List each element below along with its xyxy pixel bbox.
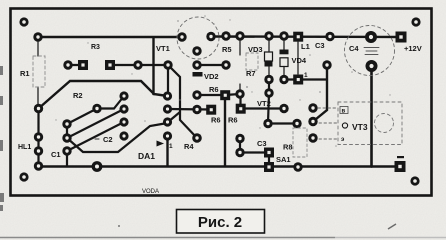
diode VD2 cathode bar <box>193 72 203 77</box>
wire VT1 vertical to DA1 pin <box>154 38 168 96</box>
pad 226,65 <box>221 60 230 69</box>
VT1 pad left <box>177 32 186 41</box>
wire VD2 row <box>197 64 226 66</box>
DA1 pin1 triangle <box>157 141 165 147</box>
svg-text:VODA: VODA <box>142 189 159 195</box>
svg-text:C1: C1 <box>51 150 61 159</box>
wire x327 vertical with diagonal <box>313 65 327 122</box>
capacitor C1 pads column <box>62 119 71 155</box>
svg-text:C2: C2 <box>103 135 113 144</box>
ground bus wire <box>39 165 401 168</box>
svg-text:R4: R4 <box>184 142 194 151</box>
svg-text:R7: R7 <box>246 69 256 78</box>
square pad minus terminal <box>395 161 406 172</box>
mounting hole top-left <box>19 17 28 26</box>
VT3 base letter <box>340 107 348 114</box>
node pads x313 column <box>308 103 317 142</box>
IC DA1 pads left column <box>119 91 128 140</box>
wire VT3 collector vertical <box>370 66 373 167</box>
tick before C2 <box>95 138 99 140</box>
wire C1 column verticals <box>66 124 68 138</box>
wire pad row y65 left pair <box>68 64 83 66</box>
wire resistor R5 leads <box>239 36 241 55</box>
pad row y65 a <box>63 60 72 69</box>
small artifact right <box>388 224 396 229</box>
square pad SA1 top <box>264 148 274 158</box>
wire DA1 pin8 to ground bus <box>166 136 168 166</box>
bottom rule artifact <box>0 237 335 239</box>
wire C3 pads vertical <box>239 139 241 153</box>
svg-text:1: 1 <box>304 72 308 79</box>
square pad L1 bottom <box>293 75 303 85</box>
diode VD3 body <box>265 52 273 67</box>
wire R2 polygon from pad 38,108 <box>39 81 155 109</box>
svg-text:R3: R3 <box>91 44 100 51</box>
square pad 83,65 <box>78 60 88 70</box>
wire C3 to SA1 <box>240 151 269 153</box>
mounting hole top-right <box>411 17 420 26</box>
transistor VT3 dashed circle <box>375 114 394 133</box>
diode VD4 body <box>280 50 289 67</box>
svg-text:DA1: DA1 <box>138 151 155 161</box>
capacitor C4 dashed outline <box>345 26 395 76</box>
pad 97,108 <box>92 104 101 113</box>
pad 138,65 <box>133 60 142 69</box>
wire inductor L1 lead <box>297 42 299 74</box>
small artifact left dot <box>118 225 120 227</box>
VT1 pad base <box>192 46 201 55</box>
wire 168,65 down to DA1 pin <box>167 65 169 96</box>
wire 168,65 bypass via x180 to R4 pad <box>168 65 197 138</box>
svg-text:VT2: VT2 <box>257 99 271 108</box>
square pad 211,109 <box>206 105 216 115</box>
wire x225 vertical to ground <box>224 95 226 166</box>
LED HL1 pads column <box>34 132 43 170</box>
capacitor C4 polarity hatch <box>364 48 379 55</box>
IC DA1 pads right column <box>163 91 172 140</box>
svg-text:VT1: VT1 <box>156 44 170 53</box>
scan speckles <box>55 15 390 147</box>
board outline <box>11 9 432 196</box>
svg-text:VT3: VT3 <box>352 122 368 132</box>
minus terminal mark <box>397 156 404 158</box>
wire DA1 pin3 to C1 pad <box>67 122 124 151</box>
mounting hole bottom-left <box>19 172 28 181</box>
resistor R6 lower row pad <box>192 105 201 114</box>
wire 67,138 diagonal to DA1 pin <box>67 109 124 138</box>
wire HL1 vertical <box>37 109 39 167</box>
resistor R8 body <box>293 128 307 157</box>
caption box <box>177 210 265 234</box>
svg-text:VD4: VD4 <box>292 56 307 65</box>
resistor R1 body <box>33 56 45 87</box>
square pad 110,65 <box>105 60 115 70</box>
svg-text:R8: R8 <box>283 143 293 152</box>
resistor R6 upper row pad <box>192 90 201 99</box>
square pad L1 top <box>293 32 303 42</box>
pad row y79 <box>264 75 288 84</box>
svg-text:R5: R5 <box>222 45 232 54</box>
wire DA1 row 109 to R6 <box>168 108 212 111</box>
square pad +12V <box>396 32 407 43</box>
square pad 225,95 <box>220 90 230 100</box>
left edge artifacts <box>0 66 4 211</box>
svg-text:C3: C3 <box>257 139 267 148</box>
transistor VT3 dashed outline <box>338 102 402 145</box>
pad 168,65 <box>163 60 172 69</box>
mounting hole bottom-right <box>410 176 419 185</box>
capacitor C3 pad b <box>235 148 244 157</box>
resistor R7 body <box>246 53 258 70</box>
svg-text:SA1: SA1 <box>276 155 291 164</box>
wire 225 to VT2 pad <box>225 94 240 95</box>
wire top bus right segment <box>211 35 401 38</box>
VT3 leader dashes <box>318 108 338 139</box>
svg-text:R6: R6 <box>228 116 238 125</box>
transistor VT2 pad top <box>235 89 244 98</box>
VT3 pin marker circle <box>342 123 347 128</box>
capacitor C4 pad minus <box>366 60 378 72</box>
square pad 240,108 <box>236 104 246 114</box>
svg-text:в: в <box>342 109 346 115</box>
svg-text:R2: R2 <box>73 91 83 100</box>
resistor R4 pad <box>192 133 202 143</box>
pad 268,123 <box>263 119 272 128</box>
pad row y36 cluster <box>221 31 334 41</box>
ground bus big pad <box>92 161 103 172</box>
pad 38,108 <box>34 104 43 113</box>
svg-text:VD3: VD3 <box>248 45 263 54</box>
svg-text:R6: R6 <box>209 85 219 94</box>
wire 97,108 to DA1 pin1 <box>97 96 124 109</box>
pad 269,93 <box>264 88 273 97</box>
svg-text:Рис. 2: Рис. 2 <box>198 214 242 231</box>
wire 67,124 diagonal to 97,108 <box>67 109 97 125</box>
wire 67,138 chevron to DA1 pin8 <box>67 123 168 152</box>
wire row y79 <box>284 78 298 80</box>
svg-text:L1: L1 <box>301 42 310 51</box>
wire branch to DA1 pin 168,122 <box>168 112 180 122</box>
wire SA1 vertical <box>268 153 270 168</box>
svg-text:C3: C3 <box>315 41 325 50</box>
svg-text:HL1: HL1 <box>18 144 31 151</box>
svg-text:R1: R1 <box>20 69 30 78</box>
wire resistor R1 leads <box>37 40 39 56</box>
wire diode VD4 leads <box>283 40 285 50</box>
VT1 pad right <box>206 32 215 41</box>
svg-text:1: 1 <box>169 143 173 150</box>
square pad SA1 bottom <box>264 162 274 172</box>
pad 298,167 <box>293 162 302 171</box>
svg-text:VD2: VD2 <box>204 72 219 81</box>
svg-text:C4: C4 <box>349 44 359 53</box>
wire 269 vertical <box>268 80 270 94</box>
pad 327,65 <box>322 60 331 69</box>
wire R6 upper row <box>197 94 225 96</box>
wire L1 pad to x327 vertical <box>298 78 327 80</box>
wire VT2 vertical pair <box>239 94 241 109</box>
capacitor C3 pad a <box>235 134 244 143</box>
svg-text:+12V: +12V <box>404 44 422 53</box>
svg-text:R6: R6 <box>211 116 221 125</box>
pad 197,65 <box>192 60 201 69</box>
pad 284,108 <box>279 104 288 113</box>
wire VT2 row <box>241 107 285 109</box>
wire row y123 <box>268 122 297 124</box>
wire 269,93 down <box>268 93 269 123</box>
pad 297,123 <box>292 119 301 128</box>
wire diode VD3 leads <box>268 40 270 52</box>
transistor VT1 dashed outline <box>177 17 219 59</box>
node pad R1 top <box>33 32 42 41</box>
wire pad row y65 middle <box>110 64 168 66</box>
wire top bus left segment <box>38 36 182 38</box>
capacitor C4 pad plus <box>365 31 377 43</box>
